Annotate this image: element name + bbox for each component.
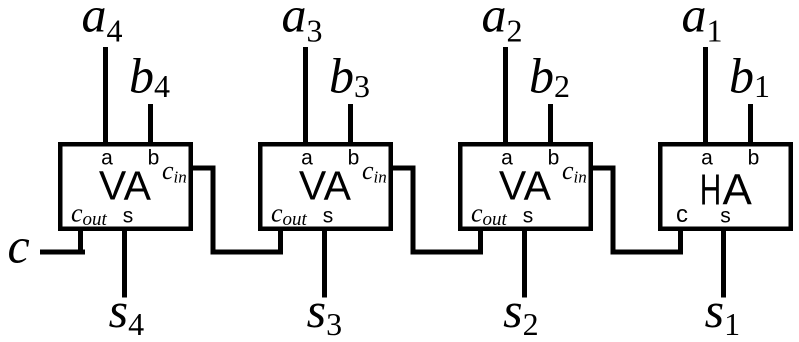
wire c_in stub of VA2 (horizontal)	[589, 166, 616, 171]
svg-text:s2: s2	[503, 282, 538, 342]
wire c_in stub of VA3 (horizontal)	[389, 166, 416, 171]
full adder VA2 (box)	[460, 144, 591, 229]
svg-text:b2: b2	[529, 48, 570, 105]
svg-text:b1: b1	[729, 48, 770, 105]
wire carry chain horizontal from next block c_out	[411, 250, 484, 255]
wire carry-out of VA3 (vertical)	[278, 227, 283, 255]
svg-text:VA: VA	[299, 162, 352, 208]
svg-text:s1: s1	[705, 282, 740, 342]
wire b1 input	[748, 104, 753, 146]
wire carry-out of VA4 (vertical)	[78, 227, 83, 255]
svg-text:b4: b4	[129, 48, 170, 105]
wire b4 input	[148, 104, 153, 146]
svg-text:VA: VA	[499, 162, 552, 208]
wire b3 input	[348, 104, 353, 146]
half adder HA (box)	[660, 144, 791, 229]
wire a4 input	[103, 47, 108, 146]
wire carry-out of HA (vertical)	[678, 227, 683, 255]
svg-text:s: s	[720, 205, 731, 228]
wire carry chain horizontal from next block c_out	[611, 250, 684, 255]
svg-text:cin: cin	[562, 156, 587, 187]
svg-text:s3: s3	[307, 282, 342, 342]
svg-text:VA: VA	[99, 162, 152, 208]
svg-text:b3: b3	[329, 48, 370, 105]
wire s4 output	[122, 227, 127, 298]
svg-text:c: c	[676, 201, 688, 228]
svg-text:a2: a2	[482, 0, 523, 49]
svg-text:s: s	[523, 205, 534, 228]
wire a1 input	[703, 47, 708, 146]
wire s2 output	[522, 227, 527, 298]
wire carry chain horizontal from next block c_out	[211, 250, 284, 255]
wire s3 output	[322, 227, 327, 298]
svg-text:H: H	[700, 166, 722, 215]
full adder VA4 (box)	[60, 144, 191, 229]
wire a3 input	[303, 47, 308, 146]
wire carry chain vertical from next block to VA3 c_in	[411, 166, 416, 255]
wire b2 input	[548, 104, 553, 146]
wire carry output c (horizontal to label)	[40, 250, 85, 255]
svg-text:s: s	[123, 205, 134, 228]
svg-text:s: s	[323, 205, 334, 228]
wire carry chain vertical from next block to VA2 c_in	[611, 166, 616, 255]
svg-text:a1: a1	[682, 0, 723, 49]
svg-text:a4: a4	[82, 0, 123, 49]
svg-text:s4: s4	[109, 282, 144, 342]
label HA of block HA	[700, 166, 753, 215]
svg-text:cin: cin	[362, 156, 387, 187]
svg-text:a3: a3	[282, 0, 323, 49]
svg-text:cin: cin	[162, 156, 187, 187]
wire carry chain vertical from next block to VA4 c_in	[211, 166, 216, 255]
wire carry-out of VA2 (vertical)	[478, 227, 483, 255]
svg-text:c: c	[8, 218, 30, 274]
wire a2 input	[503, 47, 508, 146]
wire c_in stub of VA4 (horizontal)	[189, 166, 216, 171]
full adder VA3 (box)	[260, 144, 391, 229]
wire s1 output	[721, 227, 726, 298]
